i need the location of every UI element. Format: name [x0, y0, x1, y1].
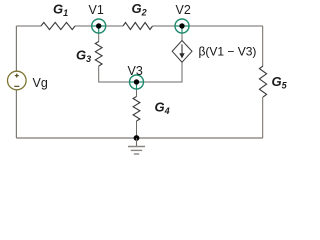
node V2	[175, 19, 189, 33]
node V1	[92, 19, 106, 33]
wire: V1 down stub to G3	[98, 33, 100, 42]
svg-text:V1: V1	[89, 3, 104, 17]
wire: V3 down stub to G4	[136, 89, 138, 97]
wire: G4 bottom to bottom rail	[136, 121, 138, 138]
svg-text:Vg: Vg	[33, 76, 48, 90]
wire: right vertical from corner to G5	[262, 26, 264, 66]
wire: top-left segment to G1	[16, 25, 41, 27]
svg-text:V2: V2	[176, 3, 191, 17]
wire: V1 node to G2	[106, 25, 123, 27]
dependent current source (diamond)	[172, 41, 192, 63]
resistor G3	[95, 42, 102, 67]
junction dot at ground	[134, 135, 140, 141]
wire: G2 to V2 node	[153, 25, 176, 27]
resistor G4	[133, 97, 140, 122]
resistor G2	[123, 23, 153, 30]
wire: V2 node to top-right corner	[189, 25, 263, 27]
resistor G1	[41, 22, 75, 29]
wire: G1 to V1 node	[75, 25, 92, 27]
wire: left vertical from Vg bottom to bottom-left corner	[15, 90, 17, 138]
wire: V3 node right to below diamond, then up to diamond bottom	[144, 62, 183, 82]
ground	[128, 138, 145, 154]
wire: left vertical from top-left corner to Vg top	[15, 26, 17, 71]
svg-text:β(V1 − V3): β(V1 − V3)	[199, 45, 257, 59]
wire: G3 bottom down then right to V3 row	[99, 66, 130, 82]
wire: bottom horizontal rail	[16, 137, 262, 139]
node V3	[130, 75, 144, 89]
svg-text:V3: V3	[128, 64, 143, 78]
wire: G5 to bottom-right corner	[262, 97, 264, 138]
wire: V2 down stub to diamond top	[181, 33, 183, 41]
resistor G5	[259, 66, 266, 97]
voltage source Vg	[7, 71, 26, 90]
